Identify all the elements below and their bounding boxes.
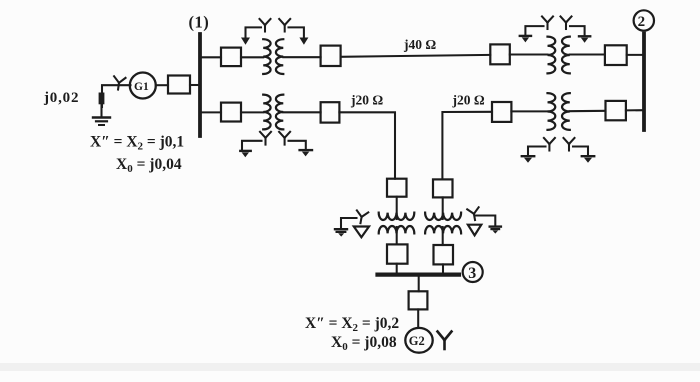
svg-text:X″ = X2 = j0,1: X″ = X2 = j0,1	[90, 134, 184, 153]
svg-text:3: 3	[468, 265, 476, 282]
svg-text:X0 = j0,08: X0 = j0,08	[331, 334, 397, 353]
svg-text:G2: G2	[409, 334, 425, 348]
svg-text:2: 2	[638, 14, 646, 30]
svg-text:G1: G1	[134, 81, 149, 93]
svg-text:X0 = j0,04: X0 = j0,04	[116, 156, 182, 175]
svg-text:j20 Ω: j20 Ω	[350, 93, 383, 108]
svg-text:X″ = X2 = j0,2: X″ = X2 = j0,2	[305, 315, 399, 334]
svg-text:j40 Ω: j40 Ω	[403, 37, 436, 52]
svg-text:j0,02: j0,02	[43, 90, 79, 106]
svg-text:(1): (1)	[189, 13, 210, 32]
svg-text:j20 Ω: j20 Ω	[452, 93, 485, 108]
